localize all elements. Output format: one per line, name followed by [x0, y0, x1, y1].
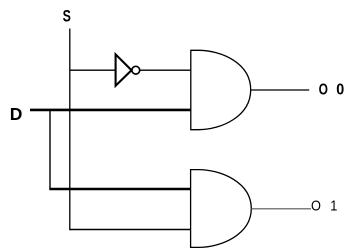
svg-text:S: S [63, 8, 72, 26]
wire: AND2 output to O1 [251, 208, 311, 210]
wire: D branch to AND2 input (thick) [49, 188, 191, 190]
AND gate U2 [191, 50, 251, 129]
wire: inverter output to AND1 input [140, 69, 191, 71]
svg-text:O: O [319, 80, 328, 98]
inverter U1 (NOT gate triangle) [116, 54, 132, 85]
wire: D branch vertical [49, 110, 51, 189]
wire: AND1 output to O0 [251, 89, 309, 91]
wire: D input bus (thick) [30, 109, 191, 112]
svg-text:1: 1 [330, 197, 337, 214]
wire: S line to AND2 input [70, 229, 191, 231]
svg-text:0: 0 [336, 81, 344, 99]
wire: S line to inverter input [70, 69, 117, 71]
svg-text:D: D [10, 104, 23, 124]
svg-text:O: O [311, 197, 321, 214]
inverter U1 bubble [132, 66, 140, 74]
AND gate U3 [191, 170, 252, 248]
wire: S input vertical line [69, 29, 71, 231]
